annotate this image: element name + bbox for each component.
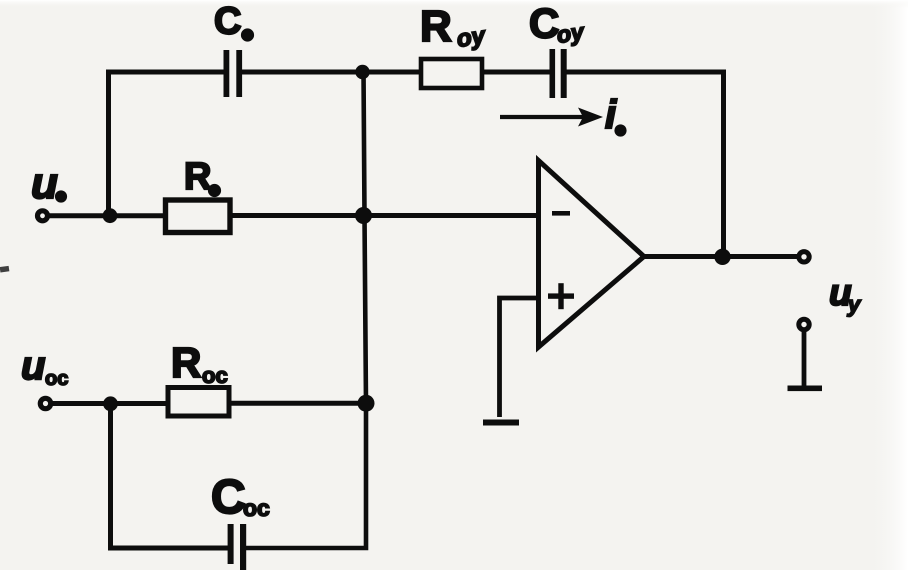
svg-text:oy: oy bbox=[555, 18, 586, 48]
svg-text:u: u bbox=[21, 344, 45, 388]
svg-text:oy: oy bbox=[455, 22, 488, 53]
svg-text:R: R bbox=[184, 156, 211, 198]
svg-text:oc: oc bbox=[45, 368, 68, 390]
svg-text:u: u bbox=[31, 159, 58, 208]
svg-text:R: R bbox=[171, 339, 201, 386]
svg-text:R: R bbox=[420, 2, 452, 51]
svg-text:oc: oc bbox=[202, 363, 228, 388]
svg-text:C: C bbox=[211, 471, 246, 524]
svg-text:y: y bbox=[847, 292, 862, 317]
svg-text:C: C bbox=[214, 1, 241, 43]
svg-text:oc: oc bbox=[243, 495, 270, 521]
